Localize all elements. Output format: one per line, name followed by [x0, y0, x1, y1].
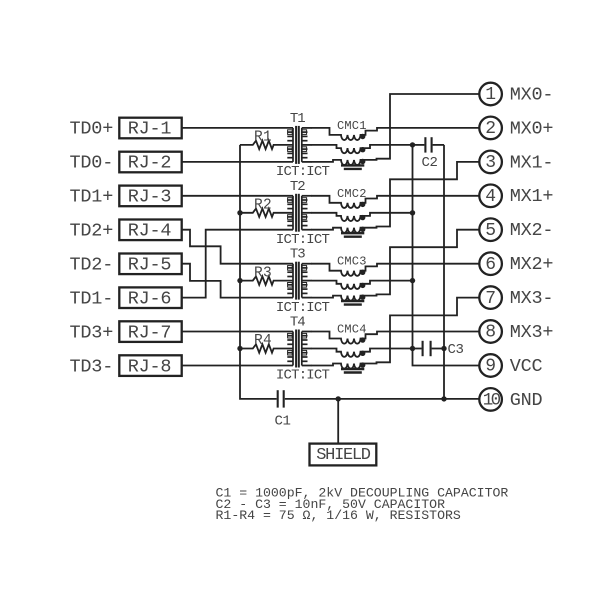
svg-text:GND: GND: [510, 390, 543, 411]
svg-text:ICT:ICT: ICT:ICT: [276, 232, 330, 248]
svg-text:R3: R3: [254, 265, 272, 281]
wire RJ-8 to T4 primary bottom: [182, 365, 293, 367]
wire shield stub: [337, 399, 339, 444]
resistor R1: [240, 141, 293, 149]
svg-text:RJ-5: RJ-5: [128, 255, 172, 276]
terminal 6 (MX2+): [479, 252, 502, 275]
svg-text:RJ-7: RJ-7: [128, 322, 172, 343]
wire CMC1 bottom output to terminal 1: [378, 94, 479, 159]
terminal 9 (VCC): [479, 354, 502, 377]
transformer T3: [287, 262, 311, 300]
svg-text:ICT:ICT: ICT:ICT: [276, 300, 330, 316]
capacitor C3: [413, 348, 422, 350]
junction C3 / GND bus: [441, 346, 446, 351]
svg-text:T2: T2: [290, 179, 305, 195]
junction tap bus / R3: [237, 278, 242, 283]
common-mode choke CMC1: [311, 128, 378, 169]
wire RJ-6 to T2 primary bottom: [182, 230, 293, 298]
connector pin RJ-1: [119, 118, 181, 139]
connector pin RJ-5: [119, 254, 181, 275]
svg-text:4: 4: [485, 187, 496, 207]
wire RJ-2 to T1 primary bottom: [182, 161, 293, 163]
svg-text:TD3-: TD3-: [70, 356, 114, 377]
transformer T4: [287, 330, 311, 368]
wire CMC3 bottom output to terminal 5: [378, 230, 479, 295]
wire RJ-3 to T2 primary top: [182, 195, 293, 197]
svg-text:RJ-4: RJ-4: [128, 221, 172, 242]
terminal 4 (MX1+): [479, 185, 502, 208]
svg-text:10: 10: [483, 391, 501, 411]
terminal 10 (GND): [479, 388, 502, 411]
common-mode choke CMC4: [311, 332, 378, 373]
connector pin RJ-3: [119, 186, 181, 207]
wire CMC2 tap to VCC bus: [378, 212, 413, 214]
svg-text:SHIELD: SHIELD: [316, 446, 371, 465]
svg-text:T4: T4: [290, 315, 305, 331]
svg-text:C3: C3: [448, 342, 464, 358]
wire CMC3 top output to terminal 6: [378, 263, 479, 265]
svg-text:VCC: VCC: [510, 356, 543, 377]
terminal 7 (MX3-): [479, 286, 502, 309]
terminal 3 (MX1-): [479, 151, 502, 174]
svg-text:R1: R1: [254, 130, 272, 146]
svg-text:RJ-6: RJ-6: [128, 288, 172, 309]
svg-text:TD0-: TD0-: [70, 153, 114, 174]
svg-text:R2: R2: [254, 197, 272, 213]
svg-text:ICT:ICT: ICT:ICT: [276, 368, 330, 384]
terminal 2 (MX0+): [479, 117, 502, 140]
svg-text:1: 1: [485, 85, 496, 105]
wire CMC2 top output to terminal 4: [378, 195, 479, 197]
junction VCC bus / C3: [410, 346, 415, 351]
junction GND bus / GND line: [441, 396, 446, 401]
wire VCC bus to terminal 9: [413, 145, 480, 366]
svg-text:MX2+: MX2+: [510, 254, 554, 275]
junction tap bus / R4: [237, 346, 242, 351]
wire CMC4 top output to terminal 8: [378, 331, 479, 333]
svg-text:MX2-: MX2-: [510, 220, 554, 241]
svg-text:MX3+: MX3+: [510, 322, 554, 343]
wire RJ-5 to T3 primary bottom: [182, 264, 293, 298]
svg-text:9: 9: [485, 357, 496, 377]
svg-text:RJ-8: RJ-8: [128, 356, 172, 377]
wire RJ-4 to T3 primary top: [182, 230, 293, 264]
svg-text:TD1-: TD1-: [70, 288, 114, 309]
transformer T1: [287, 126, 311, 164]
capacitor C2: [413, 144, 425, 146]
connector pin RJ-4: [119, 220, 181, 241]
junction GND line / shield stub: [336, 396, 341, 401]
connector pin RJ-6: [119, 287, 181, 308]
resistor R2: [240, 209, 293, 217]
transformer T2: [287, 194, 311, 232]
svg-text:CMC3: CMC3: [337, 255, 367, 269]
wire RJ-7 to T4 primary top: [182, 331, 293, 333]
wire C1 to terminal 10 (GND): [285, 398, 480, 400]
junction VCC bus / C2: [410, 142, 415, 147]
wire CMC4 bottom output to terminal 7: [378, 298, 479, 363]
resistor R4: [240, 344, 293, 352]
svg-text:MX1-: MX1-: [510, 152, 554, 173]
svg-text:TD1+: TD1+: [70, 187, 114, 208]
svg-text:RJ-3: RJ-3: [128, 187, 172, 208]
connector pin RJ-2: [119, 152, 181, 173]
svg-text:T3: T3: [290, 247, 305, 263]
wire CMC3 tap to VCC bus: [378, 280, 413, 282]
svg-text:TD2+: TD2+: [70, 221, 114, 242]
wire CMC4 tap to VCC bus: [378, 348, 413, 350]
svg-text:MX0-: MX0-: [510, 84, 554, 105]
wire RJ-1 to T1 primary top: [182, 127, 293, 129]
svg-text:CMC2: CMC2: [337, 187, 367, 201]
svg-text:CMC4: CMC4: [337, 323, 367, 337]
svg-text:R1-R4 = 75 Ω, 1/16 W, RESISTOR: R1-R4 = 75 Ω, 1/16 W, RESISTORS: [216, 508, 461, 523]
svg-text:MX3-: MX3-: [510, 288, 554, 309]
capacitor C1: [277, 390, 279, 407]
svg-text:MX1+: MX1+: [510, 186, 554, 207]
node SHIELD: [310, 444, 377, 466]
wire center-tap bus to C1: [240, 145, 277, 399]
junction VCC bus / CMC2 tap: [410, 210, 415, 215]
svg-text:ICT:ICT: ICT:ICT: [276, 164, 330, 180]
svg-text:C1: C1: [274, 414, 290, 430]
svg-text:T1: T1: [290, 111, 305, 127]
common-mode choke CMC2: [311, 196, 378, 237]
svg-text:5: 5: [485, 221, 496, 241]
wire C2/C3 bus to GND line: [443, 145, 445, 399]
svg-text:RJ-1: RJ-1: [128, 119, 172, 140]
connector pin RJ-8: [119, 355, 181, 376]
svg-text:TD2-: TD2-: [70, 255, 114, 276]
svg-text:MX0+: MX0+: [510, 118, 554, 139]
terminal 1 (MX0-): [479, 83, 502, 106]
svg-text:C2: C2: [421, 155, 437, 171]
svg-text:R4: R4: [254, 333, 272, 349]
svg-text:RJ-2: RJ-2: [128, 153, 172, 174]
terminal 5 (MX2-): [479, 218, 502, 241]
resistor R3: [240, 276, 293, 284]
wire CMC2 bottom output to terminal 3: [378, 162, 479, 227]
terminal 8 (MX3+): [479, 320, 502, 343]
svg-text:7: 7: [485, 289, 496, 309]
junction tap bus / R2: [237, 210, 242, 215]
common-mode choke CMC3: [311, 264, 378, 305]
svg-text:2: 2: [485, 119, 496, 139]
connector pin RJ-7: [119, 321, 181, 342]
svg-text:6: 6: [485, 255, 496, 275]
wire CMC1 top output to terminal 2: [378, 127, 479, 129]
wire CMC1 tap to VCC bus: [378, 144, 413, 146]
svg-text:8: 8: [485, 323, 496, 343]
svg-text:TD3+: TD3+: [70, 322, 114, 343]
svg-text:TD0+: TD0+: [70, 119, 114, 140]
svg-text:3: 3: [485, 153, 496, 173]
svg-text:CMC1: CMC1: [337, 119, 367, 133]
junction VCC bus / CMC3 tap: [410, 278, 415, 283]
